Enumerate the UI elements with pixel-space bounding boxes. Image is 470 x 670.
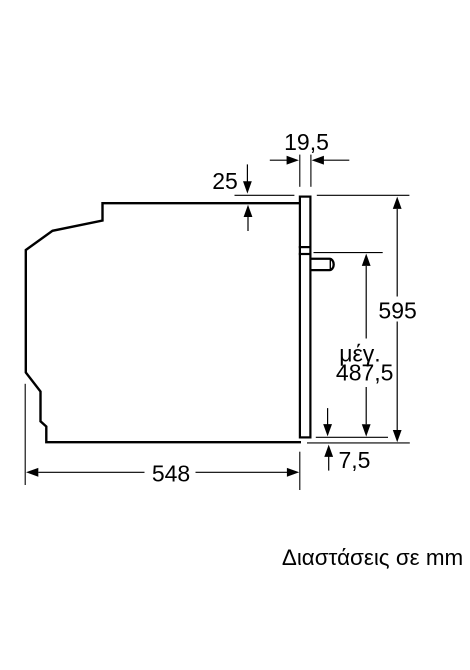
svg-text:7,5: 7,5 — [339, 447, 371, 473]
svg-text:Διαστάσεις σε mm: Διαστάσεις σε mm — [282, 545, 463, 570]
svg-text:595: 595 — [378, 297, 416, 323]
svg-text:487,5: 487,5 — [336, 360, 394, 386]
svg-text:19,5: 19,5 — [284, 129, 329, 155]
svg-text:548: 548 — [152, 461, 190, 487]
svg-text:25: 25 — [212, 168, 238, 194]
